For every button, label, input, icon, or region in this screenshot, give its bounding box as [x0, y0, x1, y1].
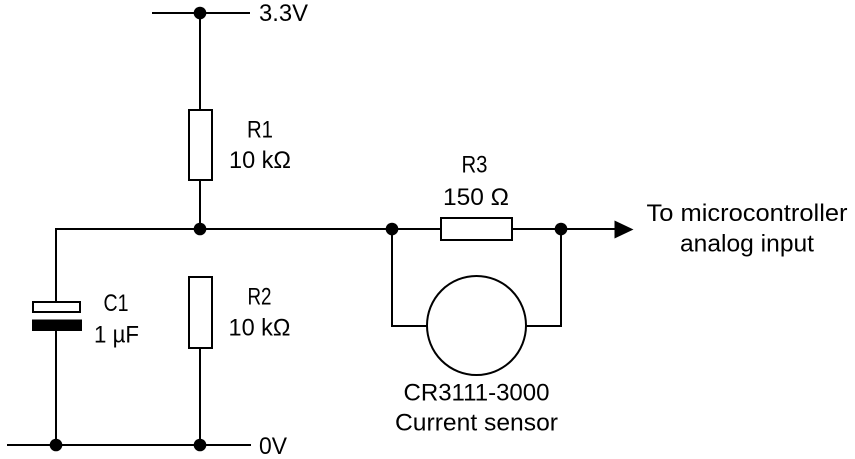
wire from C1 to 0V rail	[55, 331, 57, 445]
wire right node to arrow	[561, 228, 617, 230]
wire mid rail down to C1	[55, 228, 57, 302]
svg-text:150 Ω: 150 Ω	[443, 184, 509, 211]
wire left node down to sensor	[392, 229, 427, 326]
current sensor U1 circle	[427, 276, 526, 375]
svg-text:10 kΩ: 10 kΩ	[229, 315, 291, 342]
resistor R1	[189, 110, 212, 180]
arrow to microcontroller	[615, 221, 634, 239]
wire left node to R3	[392, 228, 441, 230]
node junction C1/0V	[50, 439, 63, 452]
node junction on 3.3V rail	[194, 7, 207, 20]
wire from 3.3V rail to R1	[199, 13, 201, 110]
wire from R1 to mid node	[199, 180, 201, 229]
node mid junction	[194, 223, 207, 236]
node right sensor junction	[555, 223, 568, 236]
capacitor C1 bottom plate	[32, 320, 82, 332]
wire mid rail	[56, 228, 393, 230]
wire bottom 0V rail	[7, 444, 251, 446]
svg-text:analog input: analog input	[680, 231, 814, 258]
node junction R2/0V	[194, 439, 207, 452]
svg-text:R3: R3	[462, 152, 488, 179]
svg-text:To microcontroller: To microcontroller	[647, 200, 848, 227]
svg-text:0V: 0V	[259, 433, 287, 459]
node left sensor junction	[386, 223, 399, 236]
svg-text:CR3111-3000: CR3111-3000	[404, 380, 550, 407]
wire top 3.3V rail	[152, 12, 250, 14]
resistor R3	[441, 218, 512, 240]
capacitor C1 top plate	[33, 302, 80, 312]
wire from R2 to 0V rail	[199, 348, 201, 445]
wire sensor to right node	[526, 229, 561, 326]
svg-text:1 µF: 1 µF	[94, 322, 139, 349]
resistor R2	[189, 277, 212, 348]
svg-text:R1: R1	[247, 117, 273, 144]
svg-text:Current sensor: Current sensor	[395, 410, 558, 437]
svg-text:C1: C1	[104, 290, 129, 317]
svg-text:R2: R2	[248, 284, 272, 311]
wire R3 to right node	[512, 228, 562, 230]
svg-text:3.3V: 3.3V	[259, 0, 308, 27]
svg-text:10 kΩ: 10 kΩ	[229, 147, 291, 174]
